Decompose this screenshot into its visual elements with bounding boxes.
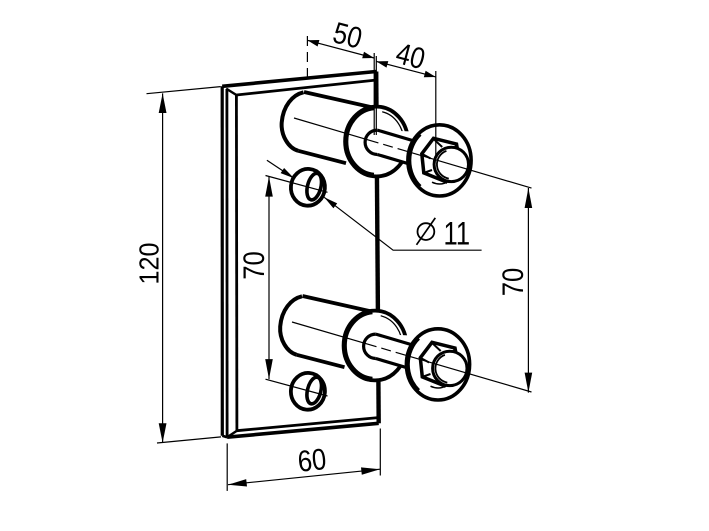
bottom boss bottom silhouette line <box>297 355 345 367</box>
svg-text:70: 70 <box>497 268 530 297</box>
bottom stud shaft bottom silhouette <box>376 359 413 370</box>
top hex nut outline <box>422 138 461 182</box>
bottom boss left crescent (thick arc) <box>345 312 373 379</box>
top stud shaft top silhouette <box>377 130 412 140</box>
top nut front face circle <box>434 147 468 181</box>
bottom washer inner edge arc below nut <box>431 385 448 388</box>
dim 70 right: bottom arrow <box>525 373 533 393</box>
dim 70 left: top arrow <box>265 177 273 197</box>
plate: back-left edge line <box>225 89 228 437</box>
bottom nut front face circle <box>433 351 467 385</box>
dim 50: left arrow <box>307 40 319 47</box>
bottom boss front face circle <box>344 311 407 381</box>
dim 120: dimension line <box>162 93 164 442</box>
dim 120: bottom extension line <box>157 437 221 443</box>
dim 120: top arrow <box>159 93 167 113</box>
hole bottom: bore far rim ellipse <box>304 376 324 406</box>
bottom boss face inner tangent arc <box>381 316 402 348</box>
top boss rear end-cap arc <box>282 92 304 151</box>
hole top: bore far rim ellipse <box>304 172 324 202</box>
plate: outer silhouette left edge <box>221 86 224 435</box>
bottom boss top silhouette line <box>303 296 385 314</box>
bottom boss rear end-cap arc <box>280 296 302 355</box>
dim 50: right arrow <box>362 52 374 59</box>
plate: outer silhouette top edge <box>222 72 376 87</box>
plate: bottom-left bevel <box>222 436 227 438</box>
dim 120: top extension line <box>147 87 221 94</box>
dim 70 right: dimension line <box>527 188 529 393</box>
bottom washer left crescent <box>408 338 419 390</box>
top stud shaft bottom silhouette <box>377 155 414 166</box>
svg-text:60: 60 <box>296 443 328 479</box>
hole top: outer rim ellipse <box>289 167 326 207</box>
centerline of bottom stud axis <box>292 322 532 392</box>
top stud shaft left end arc <box>365 130 377 154</box>
dim 40: left extension line <box>375 56 377 135</box>
dia 11 callout: upper arrow <box>281 168 294 178</box>
dim 40: left arrow <box>376 61 388 68</box>
dim 70 left: bottom extension line through hole <box>266 379 328 396</box>
dia 11 callout: upper leader segment <box>267 160 294 178</box>
dim 50: dashed extension line (hole axis) <box>306 36 308 79</box>
dia 11 callout: leader line to text <box>324 197 481 250</box>
dim 60: right extension line <box>379 429 381 476</box>
top boss top silhouette line <box>304 92 386 110</box>
top boss left crescent (thick arc) <box>346 108 374 175</box>
plate: bottom-left corner diagonal <box>227 431 237 438</box>
plate: outer silhouette bottom edge <box>227 423 379 437</box>
svg-text:70: 70 <box>238 251 271 280</box>
svg-text:11: 11 <box>444 215 471 251</box>
bottom stud shaft top silhouette <box>376 334 411 344</box>
dia 11 callout: diameter symbol circle <box>418 223 435 240</box>
top nut front chamfer inner arc <box>437 151 449 179</box>
dim 40: right arrow <box>424 71 436 78</box>
dim 60: left extension line <box>226 443 228 491</box>
top washer left crescent <box>409 134 420 186</box>
dim 40: right extension line <box>435 71 437 160</box>
dim 60: left arrow <box>228 479 247 486</box>
plate: front face bottom edge <box>237 418 378 431</box>
bottom stud shaft (white body) <box>364 334 415 370</box>
svg-text:120: 120 <box>133 243 164 285</box>
dim 50: right extension line <box>373 53 375 135</box>
dim 50: dimension line <box>307 40 374 58</box>
dim 60: right arrow <box>361 467 380 474</box>
bottom hex nut outline <box>420 342 459 386</box>
hole bottom: outer rim ellipse <box>289 371 326 411</box>
dim 40: dimension line <box>376 61 436 77</box>
top boss face inner tangent arc <box>382 112 403 144</box>
dia 11 callout: lower arrow <box>324 197 337 208</box>
dim 70 left: dimension line <box>268 177 270 380</box>
bottom hex nut chamfer edges <box>432 343 441 351</box>
plate: front face left edge <box>235 95 238 431</box>
plate: front face top edge <box>236 80 376 95</box>
top washer inner edge arc below nut <box>432 181 449 184</box>
plate: outer silhouette right edge <box>376 72 379 424</box>
top washer ellipse <box>408 125 471 196</box>
bottom stud shaft left end arc <box>364 334 376 358</box>
top stud shaft (white body) <box>365 130 416 166</box>
bottom washer ellipse <box>406 329 469 400</box>
dim 60: dimension line <box>228 469 380 485</box>
top boss front face circle <box>345 107 408 177</box>
dim 70 left: bottom arrow <box>265 359 273 379</box>
top boss bottom silhouette line <box>298 151 346 163</box>
top hex nut chamfer edges <box>433 139 442 147</box>
dia 11 callout: diameter symbol slash <box>417 218 436 245</box>
dim 70 right: top arrow <box>525 188 533 208</box>
bottom nut front chamfer inner arc <box>435 355 447 383</box>
dim 70 left: top extension line through hole <box>266 176 328 193</box>
dim 120: bottom arrow <box>159 423 167 443</box>
centerline of top stud axis <box>294 118 532 188</box>
plate: top-left corner diagonal <box>226 89 236 95</box>
